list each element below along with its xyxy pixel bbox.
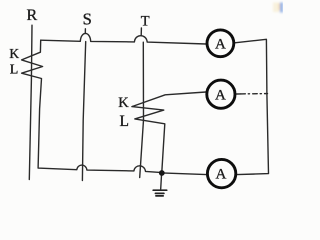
svg-text:S: S	[83, 10, 92, 29]
svg-text:K: K	[118, 95, 129, 111]
svg-text:A: A	[215, 36, 226, 52]
svg-text:L: L	[119, 113, 128, 130]
svg-text:R: R	[26, 7, 37, 24]
svg-text:L: L	[10, 63, 19, 78]
svg-text:A: A	[215, 87, 226, 103]
svg-text:A: A	[215, 167, 226, 183]
svg-text:T: T	[141, 13, 150, 29]
svg-text:K: K	[9, 46, 19, 61]
